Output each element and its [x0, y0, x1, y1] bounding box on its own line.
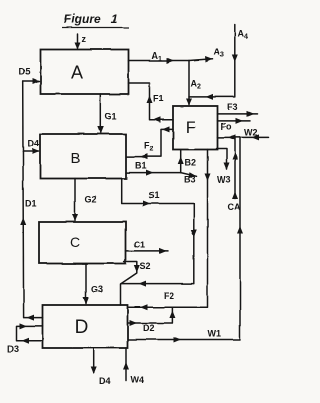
svg-text:Fo: Fo	[221, 122, 232, 132]
svg-text:D4: D4	[28, 139, 40, 149]
svg-text:F2: F2	[164, 291, 175, 301]
stream W1 from D up to W2	[128, 137, 243, 342]
svg-text:B3: B3	[184, 175, 196, 185]
svg-text:C: C	[70, 234, 80, 250]
stream G2 from B to C	[72, 179, 97, 222]
stream D4 into B	[23, 139, 40, 155]
svg-text:W2: W2	[244, 128, 258, 138]
stream G1 from A to B	[97, 94, 116, 134]
svg-text:C1: C1	[134, 240, 146, 250]
svg-text:B2: B2	[185, 158, 197, 168]
svg-text:B: B	[70, 150, 80, 167]
stream from F bottom to D (F2)	[128, 150, 211, 311]
stream A3 out	[189, 47, 224, 63]
svg-text:W4: W4	[131, 375, 145, 385]
stream D5 into A	[19, 67, 41, 85]
stream W4 into D bottom	[123, 348, 144, 385]
stream D3 loop on D left	[8, 323, 43, 354]
svg-text:B1: B1	[135, 161, 147, 171]
stream W2 into F	[218, 128, 270, 141]
stream G3 from C to D	[83, 264, 103, 305]
svg-text:A: A	[71, 63, 83, 83]
svg-text:S1: S1	[149, 191, 160, 201]
unit A box	[41, 50, 129, 95]
svg-text:D2: D2	[143, 323, 155, 333]
stream Fo out of F	[218, 118, 251, 132]
stream S2 from C down to D	[121, 261, 151, 305]
stream B3 out	[181, 172, 197, 184]
stream A4 input	[189, 25, 248, 100]
svg-text:G2: G2	[85, 195, 97, 205]
svg-text:CA: CA	[228, 202, 241, 212]
stream D2 from D joins F2	[128, 307, 175, 333]
svg-text:Figure 1: Figure 1	[64, 12, 118, 26]
stream S1 from B around to S2	[121, 179, 197, 287]
svg-text:F1: F1	[153, 94, 164, 104]
stream A1 from A	[129, 51, 190, 64]
svg-text:S2: S2	[140, 261, 151, 271]
svg-text:W3: W3	[217, 175, 231, 185]
title Figure 1	[62, 12, 129, 28]
stream CA up into W2	[228, 137, 241, 212]
stream F3 out of F	[218, 102, 258, 117]
svg-text:F: F	[185, 118, 195, 137]
svg-text:z: z	[82, 34, 87, 44]
stream A2 into F	[186, 61, 201, 106]
svg-text:G3: G3	[91, 285, 103, 295]
svg-text:F3: F3	[228, 102, 239, 112]
stream D4 out bottom	[91, 348, 111, 386]
stream W3 out of F bottom	[217, 149, 231, 185]
unit D box	[43, 305, 128, 348]
svg-text:D5: D5	[19, 67, 31, 77]
stream C1 out of C	[126, 240, 169, 254]
svg-text:W1: W1	[208, 329, 222, 339]
stream F2 from F to B	[127, 126, 174, 159]
stream B1 from B	[126, 161, 181, 176]
svg-text:D1: D1	[25, 199, 37, 209]
unit F box	[173, 106, 218, 150]
svg-text:G1: G1	[105, 112, 117, 122]
stream B2 into F bottom	[178, 150, 196, 173]
stream Z into A	[75, 34, 87, 50]
svg-text:D3: D3	[8, 344, 20, 354]
unit B box	[40, 134, 126, 179]
svg-text:D4: D4	[100, 376, 112, 386]
recycle riser D1 on left	[20, 81, 42, 321]
unit C box	[39, 222, 126, 264]
svg-text:D: D	[75, 317, 89, 338]
stream F1 from F to A	[129, 83, 174, 123]
